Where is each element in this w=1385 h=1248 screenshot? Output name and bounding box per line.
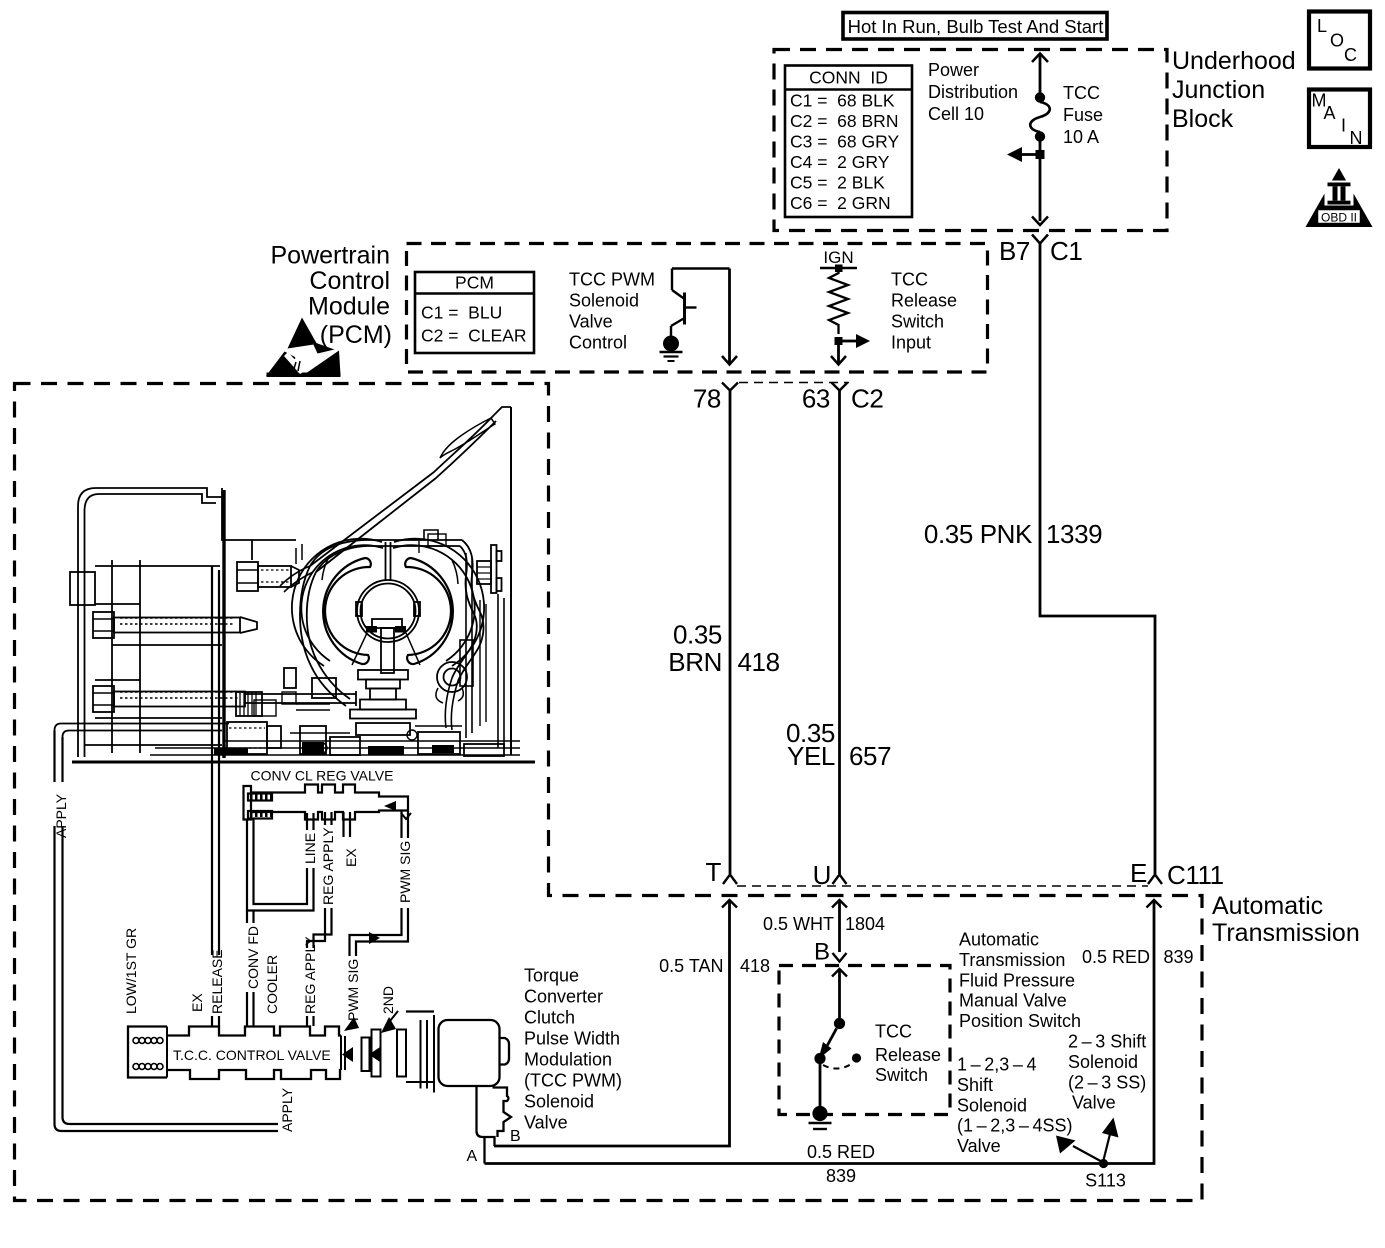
svg-text:T.C.C. CONTROL VALVE: T.C.C. CONTROL VALVE [173,1047,331,1063]
svg-text:2 – 3 Shift: 2 – 3 Shift [1068,1032,1146,1052]
svg-text:Modulation: Modulation [524,1050,612,1070]
torus left crescent [323,558,371,664]
svg-text:(1 – 2,3 – 4SS): (1 – 2,3 – 4SS) [957,1116,1072,1136]
svg-text:Solenoid: Solenoid [957,1095,1027,1115]
svg-text:2ND: 2ND [380,986,396,1014]
pipe: reg apply from regulator valve to TCC control valve [307,812,332,1026]
torus inner ring [357,580,419,642]
svg-text:0.5 WHT: 0.5 WHT [763,914,834,934]
svg-text:CONV CL REG VALVE: CONV CL REG VALVE [251,768,394,784]
svg-text:IGN: IGN [823,248,853,267]
svg-text:1 – 2,3 – 4: 1 – 2,3 – 4 [957,1055,1036,1075]
svg-text:C2 = CLEAR: C2 = CLEAR [421,326,527,346]
svg-text:CONV FD: CONV FD [245,926,261,989]
label 0.5 TAN 418 [659,956,770,976]
svg-text:Automatic: Automatic [1212,892,1323,920]
svg-text:EX: EX [343,848,359,867]
turbine hub [352,619,420,689]
svg-text:COOLER: COOLER [264,955,280,1014]
svg-text:I: I [1341,116,1346,136]
Automatic Transmission dashed boundary [15,384,1203,1201]
svg-text:YEL: YEL [787,741,835,771]
clutch pack internals [111,560,113,753]
svg-text:TCC: TCC [875,1022,912,1042]
svg-text:(2 – 3 SS): (2 – 3 SS) [1068,1072,1146,1092]
svg-text:PWM SIG: PWM SIG [345,959,361,1021]
TCC control valve body [128,1027,341,1080]
Power Distribution Cell 10 label [928,60,1018,124]
additional housing and fastener detail [280,530,486,738]
bolt B2 lower [93,686,356,712]
svg-text:C2 = 68 BRN: C2 = 68 BRN [790,111,898,131]
housing left outline [300,566,346,706]
pipe: conv fd feed down to TCC control valve [247,911,254,1027]
connector B7 / C1 fork [999,235,1082,267]
svg-text:C3 = 68 GRY: C3 = 68 GRY [790,132,899,152]
wire 0.35 BRN 418 (pin 78 to C111 T) [723,391,737,885]
svg-text:REG APPLY: REG APPLY [320,827,336,905]
inner circle pads [356,602,362,616]
svg-text:Power: Power [928,60,979,80]
svg-text:C4 = 2 GRY: C4 = 2 GRY [790,152,890,172]
right channel verticals [445,594,504,748]
TCC Fuse 10 A label [1063,83,1103,147]
svg-text:APPLY: APPLY [53,793,69,838]
Underhood Junction Block dashed box [774,50,1167,231]
svg-text:C111: C111 [1167,860,1224,890]
svg-text:Automatic: Automatic [959,930,1039,950]
pressure plate [222,490,225,758]
svg-text:TCC PWM: TCC PWM [569,270,655,290]
svg-text:418: 418 [740,956,770,976]
connector C2 forks, pins 78 and 63 [693,383,884,414]
return spring [436,662,467,703]
svg-text:0.5 RED: 0.5 RED [1082,947,1150,967]
svg-text:Release: Release [875,1045,941,1065]
resistor R1 (TCC release switch pull-up) [829,268,848,334]
svg-text:RELEASE: RELEASE [209,949,225,1014]
svg-text:C6 = 2 GRN: C6 = 2 GRN [790,193,891,213]
TCC PWM Solenoid Valve Control label [569,270,655,353]
apply channel under clutch [55,724,230,731]
base plate line [72,761,535,764]
svg-text:C2: C2 [851,384,883,414]
connector pin B at TCC release switch [814,939,847,966]
wire 0.5 RED 839 (splice S113 to C111 E) [485,900,1162,1164]
svg-text:C5 = 2 BLK: C5 = 2 BLK [790,173,885,193]
TCC control valve spool arrows [342,1011,398,1062]
svg-text:Input: Input [891,333,931,353]
converter clutch regulator valve body [244,785,412,820]
svg-text:B7: B7 [999,236,1030,266]
Automatic Transmission Fluid Pressure Manual Valve Position Switch label [959,930,1081,1032]
svg-text:Control: Control [569,333,627,353]
Underhood Junction Block label [1172,47,1296,133]
Automatic Transmission label [1212,892,1360,947]
Powertrain Control Module (PCM) label [271,242,393,350]
svg-text:(TCC PWM): (TCC PWM) [524,1071,622,1091]
label 0.35 BRN 418 [668,620,779,678]
hub stem top [385,542,387,581]
svg-text:1339: 1339 [1046,519,1102,549]
svg-text:Valve: Valve [957,1136,1001,1156]
svg-text:Control: Control [309,267,390,295]
svg-text:63: 63 [802,384,830,414]
svg-text:Manual Valve: Manual Valve [959,991,1067,1011]
label 0.5 RED 839 (bottom run) [807,1142,875,1186]
wave blob on hypotenuse [440,418,495,458]
junction node with right arrow (TCC release switch input tap) [835,334,871,348]
svg-text:Junction: Junction [1172,76,1265,104]
svg-text:Fuse: Fuse [1063,105,1103,125]
svg-text:APPLY: APPLY [279,1087,295,1132]
TCC Release Switch Input label [891,270,957,353]
LOC reference symbol [1309,12,1370,69]
svg-text:418: 418 [738,647,780,677]
1-2,3-4 Shift Solenoid label [957,1055,1072,1157]
bolt B1 upper [93,612,257,638]
svg-text:Converter: Converter [524,987,603,1007]
svg-text:0.35: 0.35 [673,620,722,650]
svg-text:(PCM): (PCM) [320,321,392,349]
CONN ID table [785,66,912,218]
svg-text:E: E [1130,858,1147,888]
svg-text:Module: Module [308,293,390,321]
ground at transistor emitter [660,336,683,362]
PCM dashed box [407,244,988,373]
svg-text:Pulse Width: Pulse Width [524,1029,620,1049]
svg-text:BRN: BRN [668,647,722,677]
hub base stack [350,689,416,736]
transmission case left outline [78,488,222,757]
svg-text:Release: Release [891,291,957,311]
OBD II symbol [1306,168,1373,227]
svg-text:B: B [814,939,830,966]
svg-text:78: 78 [693,384,721,414]
bolt B3 top center [237,562,299,591]
svg-text:T: T [706,857,722,887]
svg-text:Hot In Run, Bulb Test And Star: Hot In Run, Bulb Test And Start [848,16,1104,37]
svg-text:Solenoid: Solenoid [1068,1052,1138,1072]
TCC Release Switch label [875,1022,941,1086]
Hot In Run, Bulb Test And Start power label box [843,13,1107,40]
svg-text:Solenoid: Solenoid [524,1092,594,1112]
housing right wavy wall [458,540,483,681]
pipe: apply passage from converter drawing down and around to TCC control valve [55,731,291,1132]
TCC fuse F1 10A [1007,54,1050,226]
svg-text:Clutch: Clutch [524,1008,575,1028]
IGN node [820,248,857,272]
svg-text:C: C [1344,45,1357,65]
svg-text:Shift: Shift [957,1075,993,1095]
svg-text:657: 657 [849,741,891,771]
svg-text:839: 839 [1164,947,1194,967]
bottom band clutter detail [155,692,520,755]
svg-text:Cell 10: Cell 10 [928,104,984,124]
svg-text:0.5 RED: 0.5 RED [807,1142,875,1162]
svg-text:10 A: 10 A [1063,127,1099,147]
wire 0.35 PNK 1339 (C1 B7 to C111 E) [1040,244,1162,885]
svg-text:0.35 PNK: 0.35 PNK [924,519,1033,549]
svg-text:Torque: Torque [524,966,579,986]
label 0.35 PNK 1339 [924,519,1102,549]
svg-text:REG APPLY: REG APPLY [302,936,318,1014]
svg-text:C1 = 68 BLK: C1 = 68 BLK [790,91,895,111]
pipe: line port under regulator valve [247,813,314,911]
2-3 Shift Solenoid label [1068,1032,1146,1113]
svg-text:OBD II: OBD II [1321,211,1357,225]
svg-text:A: A [467,1148,478,1165]
svg-text:Valve: Valve [569,312,613,332]
svg-text:TCC: TCC [1063,83,1100,103]
svg-text:A: A [1324,103,1336,123]
wire 0.35 YEL 657 (pin 63 to C111 U) [833,391,847,885]
label APPLY (valve riser) [278,1071,295,1135]
label 0.5 RED 839 (E wire) [1082,947,1194,967]
wire from resistor down to pin 63 [831,345,846,365]
svg-text:Valve: Valve [524,1113,568,1133]
wire from transistor collector down to pin 78 [722,269,737,365]
svg-text:L: L [1317,16,1327,36]
svg-text:839: 839 [826,1166,856,1186]
torus outer shell [292,539,382,666]
svg-text:Valve: Valve [1072,1093,1116,1113]
PCM connector table [415,272,534,353]
label 0.35 YEL 657 [786,718,891,771]
svg-text:1804: 1804 [845,914,885,934]
TCC PWM solenoid valve (hydraulic) [345,1012,511,1164]
pipe: EX port under regulator valve [344,812,351,837]
ESD static-sensitive device triangle symbol [266,318,341,378]
label 0.5 WHT 1804 [763,914,885,934]
svg-text:U: U [813,860,831,890]
svg-text:O: O [1330,31,1344,51]
connector C111 line with pins T, U, E [706,857,1224,890]
svg-text:Position Switch: Position Switch [959,1011,1081,1031]
svg-text:Distribution: Distribution [928,82,1018,102]
Torque Converter Clutch PWM Solenoid Valve label [524,966,622,1133]
torus right crescent [405,558,453,664]
svg-text:B: B [510,1128,521,1145]
svg-text:Solenoid: Solenoid [569,291,639,311]
svg-text:Block: Block [1172,105,1234,133]
bell housing hypotenuse [310,415,494,566]
wire 0.5 WHT 1804 (TCC release switch to C111 U) [832,900,847,952]
svg-text:Switch: Switch [875,1065,928,1085]
bell housing sail right edge [510,407,512,755]
svg-text:LINE: LINE [302,833,318,864]
svg-text:TCC: TCC [891,270,928,290]
TCC release switch S1 [814,1018,861,1108]
torque converter clutch cross-section drawing [55,407,536,762]
svg-text:C1: C1 [1050,236,1082,266]
svg-text:PWM SIG: PWM SIG [397,841,413,903]
transistor Q1 (TCC PWM driver) [671,269,730,337]
svg-text:Transmission: Transmission [959,950,1065,970]
svg-text:N: N [1350,128,1363,148]
PWM SIG port arrow [344,1017,359,1031]
svg-text:Switch: Switch [891,312,944,332]
wire 0.5 TAN 418 (solenoid pin B to C111 T) [494,900,737,1146]
housing top outline [310,540,462,566]
stud on right housing [477,545,502,593]
left small boss [70,572,95,605]
clutch housing steps [222,488,252,560]
ground G1 at TCC release switch [809,1106,832,1129]
svg-text:Powertrain: Powertrain [271,242,391,270]
svg-text:PCM: PCM [455,273,494,293]
svg-text:EX: EX [189,993,205,1012]
pipe: PWM SIG from regulator valve to TCC control valve [350,811,409,956]
svg-text:Underhood: Underhood [1172,47,1296,75]
svg-text:C1 = BLU: C1 = BLU [421,303,502,323]
lower valve parts clutter [225,668,520,756]
wire arrow into switch [832,969,847,1018]
svg-text:CONN ID: CONN ID [809,68,888,88]
splice S113 [1056,1118,1126,1191]
svg-text:S113: S113 [1085,1171,1126,1191]
TCC release switch dashed box [779,966,950,1115]
MAIN reference symbol [1309,90,1370,149]
svg-text:LOW/1ST GR: LOW/1ST GR [123,928,139,1014]
svg-text:0.5 TAN: 0.5 TAN [659,956,723,976]
pipe: release passage from converter drawing to TCC control valve [212,566,219,1026]
svg-text:Fluid Pressure: Fluid Pressure [959,970,1075,990]
svg-text:Transmission: Transmission [1212,919,1360,947]
